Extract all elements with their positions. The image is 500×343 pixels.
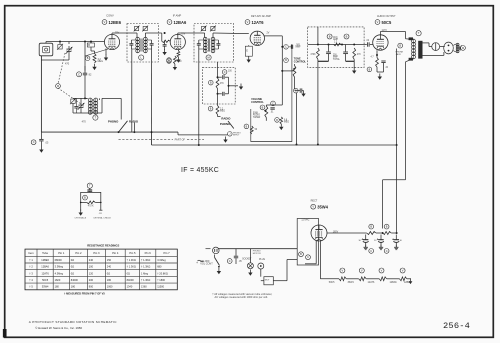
svg-text:† 1: † 1 bbox=[29, 259, 33, 262]
V4 cathode resistor bbox=[367, 50, 378, 71]
svg-text:A PHOTOFACT STANDARD NOTATION: A PHOTOFACT STANDARD NOTATION SCHEMATIC bbox=[29, 320, 117, 324]
svg-text:INPUT: INPUT bbox=[233, 135, 240, 137]
svg-text:100: 100 bbox=[89, 266, 94, 269]
B+ wire end bbox=[391, 145, 397, 234]
wire antenna to V1 grid bbox=[46, 42, 105, 44]
svg-text:V: V bbox=[381, 268, 383, 272]
volume pot R7 bbox=[260, 105, 282, 118]
AC line entry bbox=[198, 249, 211, 262]
wire osc out bbox=[85, 98, 121, 119]
node filt2 bbox=[382, 232, 384, 234]
footer copyright bbox=[35, 326, 82, 330]
capacitor C6 if bypass bbox=[162, 32, 171, 62]
svg-text:MOT: MOT bbox=[265, 279, 270, 281]
svg-text:C: C bbox=[307, 256, 309, 259]
T-A core bbox=[141, 39, 142, 52]
crystal cartridge ref bbox=[87, 183, 92, 188]
speaker SP bbox=[444, 42, 454, 54]
ground diode box bbox=[247, 57, 251, 63]
svg-text:180: 180 bbox=[71, 286, 76, 289]
trimmer C1C bbox=[57, 42, 63, 50]
wire jack drop bbox=[396, 49, 398, 145]
resistor R6 2.2Meg vol bbox=[208, 94, 225, 115]
wire T-A secondary drop bbox=[151, 49, 153, 132]
svg-text:PHONO: PHONO bbox=[108, 120, 119, 124]
electrolytic C1 bbox=[359, 233, 369, 250]
svg-text:200: 200 bbox=[89, 279, 94, 282]
svg-text:180: 180 bbox=[107, 279, 112, 282]
svg-text:12AT6: 12AT6 bbox=[252, 20, 265, 25]
svg-text:68000: 68000 bbox=[55, 259, 63, 262]
svg-text:Pin 5: Pin 5 bbox=[129, 251, 136, 255]
trimmer C1D bbox=[70, 98, 78, 113]
phone jack J2 bbox=[432, 43, 440, 51]
svg-text:PART OF: PART OF bbox=[175, 139, 186, 142]
T-A ref bbox=[139, 55, 144, 60]
svg-text:C: C bbox=[229, 260, 231, 263]
wire OT secondary bottom bbox=[423, 52, 444, 55]
svg-text:0Ω: 0Ω bbox=[127, 272, 130, 275]
svg-text:120: 120 bbox=[89, 272, 94, 275]
ground C5 bbox=[39, 147, 43, 153]
label V1 CONV bbox=[102, 14, 122, 25]
svg-text:12BE6: 12BE6 bbox=[41, 259, 49, 262]
switch S1 arm bbox=[118, 121, 136, 133]
wire osc grid drop bbox=[84, 42, 86, 71]
label 470 osc bbox=[82, 120, 87, 123]
svg-text:0Ω: 0Ω bbox=[71, 259, 74, 262]
svg-text:B: B bbox=[346, 34, 348, 38]
svg-text:† 3: † 3 bbox=[29, 272, 33, 275]
tuning capacitor C1B osc bbox=[78, 98, 85, 113]
wire V4 plate bbox=[380, 32, 413, 40]
label PHONO sw2 bbox=[220, 122, 231, 126]
svg-text:35W4: 35W4 bbox=[348, 281, 355, 284]
trimmer B1 bbox=[201, 26, 207, 32]
svg-text:† 1.3KΩ: † 1.3KΩ bbox=[141, 259, 150, 262]
heater ref 1 bbox=[340, 268, 345, 273]
label 2V bbox=[267, 31, 270, 34]
svg-text:C: C bbox=[386, 250, 388, 253]
svg-text:† 1.3KΩ: † 1.3KΩ bbox=[127, 259, 136, 262]
svg-text:C: C bbox=[224, 71, 226, 74]
heater seg 2 bbox=[348, 277, 380, 284]
svg-text:† 2: † 2 bbox=[29, 266, 33, 269]
loop antenna LA bbox=[39, 43, 53, 56]
T-B primary coil bbox=[203, 35, 207, 53]
svg-text:† 1800: † 1800 bbox=[157, 279, 165, 282]
diode load box bbox=[245, 45, 252, 56]
wire jack to speaker bbox=[440, 46, 445, 48]
capacitor C4 osc grid bbox=[77, 66, 92, 98]
label V5 bbox=[311, 199, 329, 209]
svg-text:M: M bbox=[462, 47, 464, 50]
T-B core bbox=[209, 39, 210, 52]
tube V5 35W4 bbox=[311, 225, 327, 241]
IF transformer A box bbox=[127, 24, 158, 63]
svg-text:V: V bbox=[342, 268, 344, 272]
svg-text:+: + bbox=[362, 237, 364, 241]
avc bus bbox=[308, 44, 364, 46]
svg-text:680: 680 bbox=[157, 266, 162, 269]
svg-text:CONTROL: CONTROL bbox=[294, 60, 307, 63]
ref C in term box bbox=[306, 255, 311, 260]
T-B primary cap bbox=[197, 40, 205, 49]
wiper cap bbox=[266, 101, 275, 121]
svg-text:MEG: MEG bbox=[98, 60, 104, 63]
svg-text:12AT6: 12AT6 bbox=[368, 281, 375, 284]
resistor det 47K bbox=[209, 76, 225, 88]
svg-text:CONV: CONV bbox=[106, 14, 114, 18]
avc cap 2 bbox=[343, 45, 348, 62]
heater ref 2 bbox=[359, 268, 364, 273]
svg-text:TAPER: TAPER bbox=[253, 116, 261, 119]
svg-text:C: C bbox=[272, 102, 274, 105]
svg-text:470K: 470K bbox=[310, 54, 316, 56]
wire det out bbox=[229, 84, 244, 90]
svg-text:CONTROL: CONTROL bbox=[251, 100, 264, 104]
svg-text:V: V bbox=[361, 268, 363, 272]
svg-text:1360: 1360 bbox=[141, 286, 147, 289]
capacitor C5 line bypass bbox=[31, 132, 49, 146]
resistor V2 cathode bbox=[176, 50, 180, 63]
wire avc top entry bbox=[292, 27, 318, 45]
terminal box bbox=[297, 219, 318, 266]
svg-text:MOTOR: MOTOR bbox=[253, 253, 261, 255]
svg-text:4.3Meg: 4.3Meg bbox=[55, 272, 64, 275]
wire V2 plate to T-B bbox=[178, 33, 205, 35]
AC bus wire bbox=[215, 246, 298, 249]
svg-text:12BA6: 12BA6 bbox=[390, 281, 398, 284]
wire V1 osc diag bbox=[85, 49, 108, 56]
cartridge load ref bbox=[83, 195, 88, 200]
svg-text:AUDIO OUTPUT: AUDIO OUTPUT bbox=[377, 15, 396, 18]
dashed part-of line bbox=[119, 139, 205, 142]
avc series resistor bbox=[328, 42, 356, 46]
tuning capacitor C1A bbox=[41, 42, 72, 61]
ground cartridge bbox=[79, 210, 83, 216]
heater ref 3 bbox=[379, 268, 384, 273]
svg-text:11500: 11500 bbox=[157, 286, 164, 289]
plug symbol bbox=[258, 249, 264, 269]
wire V1 plate to T-A bbox=[112, 32, 166, 34]
label 70V V2 bbox=[181, 33, 186, 36]
gang dashed link bbox=[58, 53, 81, 104]
svg-text:180: 180 bbox=[55, 286, 60, 289]
svg-text:35W4: 35W4 bbox=[317, 204, 328, 209]
ref R in term box bbox=[299, 252, 304, 257]
label socket bbox=[242, 258, 252, 260]
label 470 bbox=[65, 63, 70, 66]
wire vol bottom bbox=[265, 121, 267, 142]
cartridge output terminal bbox=[99, 210, 103, 215]
T-A secondary cap bbox=[145, 40, 153, 49]
svg-text:C: C bbox=[78, 72, 80, 76]
svg-text:680: 680 bbox=[178, 60, 183, 63]
svg-text:1820: 1820 bbox=[55, 279, 61, 282]
svg-text:VOL CONT: VOL CONT bbox=[200, 263, 213, 266]
svg-text:B: B bbox=[329, 34, 331, 38]
crystal cartridge bbox=[81, 188, 101, 211]
svg-text:DET AVC AF AMP: DET AVC AF AMP bbox=[251, 15, 271, 18]
footnote 1 bbox=[212, 292, 272, 296]
label V4 bbox=[375, 15, 396, 25]
heater seg 1 bbox=[329, 277, 359, 284]
footnote 2 bbox=[215, 295, 269, 299]
svg-text:240: 240 bbox=[89, 259, 94, 262]
svg-text:117VAC: 117VAC bbox=[301, 219, 309, 222]
avc cap 1 bbox=[326, 45, 341, 62]
svg-text:Pin 4: Pin 4 bbox=[112, 251, 119, 255]
wire det line bbox=[217, 62, 219, 77]
svg-text:Pin 2: Pin 2 bbox=[75, 251, 82, 255]
svg-text:TOTAL: TOTAL bbox=[333, 58, 341, 61]
phono jack J1 bbox=[222, 132, 242, 143]
volume control label bbox=[251, 97, 264, 104]
label PHONO sw1 bbox=[108, 120, 119, 124]
grid stopper V2 bbox=[162, 40, 170, 42]
svg-text:150: 150 bbox=[107, 259, 112, 262]
svg-text:47K: 47K bbox=[220, 83, 225, 85]
svg-text:470: 470 bbox=[65, 63, 70, 66]
svg-text:Pin 6: Pin 6 bbox=[145, 251, 152, 255]
svg-text:1 Meg: 1 Meg bbox=[141, 272, 149, 275]
gang ref M bbox=[56, 84, 61, 89]
osc coil ref T bbox=[93, 115, 98, 120]
svg-text:RADIO: RADIO bbox=[129, 120, 139, 124]
tone pot bbox=[281, 58, 296, 77]
svg-text:240: 240 bbox=[107, 266, 112, 269]
output transformer ref bbox=[416, 31, 421, 36]
wire speaker return elbow bbox=[383, 180, 406, 229]
ground R1 bbox=[92, 64, 96, 70]
wire osc top bbox=[73, 97, 88, 99]
detector filter box bbox=[203, 67, 236, 104]
table resistance readings bbox=[25, 249, 177, 290]
svg-text:† 5: † 5 bbox=[29, 286, 33, 289]
bias resistor in box bbox=[244, 124, 258, 134]
ground V1 cathode bbox=[104, 49, 108, 61]
svg-text:Pin 3: Pin 3 bbox=[93, 251, 100, 255]
ground heater bbox=[409, 278, 413, 284]
svg-text:256-4: 256-4 bbox=[443, 321, 470, 331]
svg-text:3.3Meg: 3.3Meg bbox=[157, 259, 166, 262]
node bus 296 bbox=[296, 93, 298, 146]
svg-text:† 1.3KΩ: † 1.3KΩ bbox=[141, 266, 150, 269]
B+ wire bbox=[327, 232, 367, 234]
label phono motor bbox=[253, 251, 261, 255]
wire det to sw bbox=[218, 115, 221, 117]
AVC network box bbox=[308, 27, 364, 68]
resistor R4 680 bbox=[167, 56, 182, 70]
label V2 IF AMP bbox=[167, 14, 187, 25]
oscillator coil T1 windings bbox=[88, 98, 99, 114]
wire motor loop bbox=[273, 260, 297, 281]
svg-text:† 4: † 4 bbox=[29, 279, 33, 282]
svg-text:PLUG: PLUG bbox=[259, 259, 265, 261]
svg-text:M: M bbox=[57, 85, 59, 88]
wire V5 plate stub bbox=[318, 219, 320, 226]
svg-text:† 1.3KΩ: † 1.3KΩ bbox=[127, 266, 136, 269]
label 70V bbox=[115, 32, 120, 35]
svg-text:50C5: 50C5 bbox=[329, 281, 335, 284]
svg-text:12BA6: 12BA6 bbox=[174, 20, 187, 25]
svg-text:1340: 1340 bbox=[127, 286, 133, 289]
label 165V bbox=[333, 231, 339, 234]
tube V4 50C5 bbox=[373, 35, 388, 50]
mark asterisk bbox=[196, 261, 199, 265]
terminal strip box bbox=[87, 42, 94, 48]
label RADIO sw2 bbox=[221, 116, 231, 120]
svg-text:† 20.8KΩ: † 20.8KΩ bbox=[157, 272, 168, 275]
svg-text:3.3Meg: 3.3Meg bbox=[55, 266, 64, 269]
label on-off bbox=[200, 260, 213, 266]
heater bus bbox=[320, 278, 339, 280]
svg-text:AC voltages measured with 1000: AC voltages measured with 1000 ohm per v… bbox=[215, 295, 269, 299]
wire avc return drop bbox=[317, 61, 319, 144]
footer photofact bbox=[29, 320, 117, 324]
T-A secondary coil bbox=[144, 35, 148, 53]
table footnote bbox=[64, 291, 105, 295]
svg-text:+: + bbox=[377, 237, 379, 241]
svg-text:B: B bbox=[88, 43, 90, 47]
svg-text:470: 470 bbox=[82, 120, 87, 123]
svg-text:C: C bbox=[295, 90, 297, 93]
label V3 bbox=[245, 15, 271, 25]
trimmer A2 bbox=[142, 26, 148, 32]
avc ref 1 bbox=[327, 34, 332, 39]
avc ref 2 bbox=[344, 34, 349, 39]
svg-text:84000: 84000 bbox=[71, 279, 79, 282]
ref C elcap2 bbox=[384, 249, 389, 254]
label plug bbox=[259, 259, 265, 261]
ref R1 bbox=[85, 56, 90, 61]
node osc bbox=[84, 97, 86, 99]
capacitor coupling C bbox=[281, 44, 301, 49]
svg-text:CRYSTAL CHUCK: CRYSTAL CHUCK bbox=[93, 217, 111, 220]
label crystal case bbox=[93, 217, 111, 220]
wire OT primary bottom drop bbox=[406, 59, 414, 180]
svg-text:V: V bbox=[402, 268, 404, 272]
label crystal a bbox=[75, 217, 87, 220]
capacitor det 2 bbox=[217, 85, 230, 96]
svg-text:0Ω: 0Ω bbox=[71, 266, 74, 269]
wire T-B primary drop bbox=[198, 49, 200, 145]
svg-text:35W4: 35W4 bbox=[42, 286, 49, 289]
wire OT secondary top bbox=[423, 43, 432, 47]
filter resistor 2 bbox=[376, 224, 391, 234]
wire V5 pins down bbox=[305, 241, 320, 279]
bus B- lower bbox=[151, 131, 397, 146]
svg-text:CRYSTAL A: CRYSTAL A bbox=[75, 217, 87, 220]
wire T-B sec to V3 bbox=[213, 33, 249, 35]
IF transformer B box bbox=[194, 24, 234, 63]
V4 cathode join bbox=[377, 67, 389, 80]
capacitor to V4 grid bbox=[364, 40, 373, 47]
capacitor det 1 bbox=[218, 70, 233, 86]
svg-text:MMF: MMF bbox=[296, 47, 302, 49]
node bus avc bbox=[317, 144, 319, 146]
wire V3 plate out bbox=[264, 36, 283, 105]
avc footer wire bbox=[318, 59, 354, 68]
wire T-A primary drop bbox=[131, 49, 133, 132]
ground avc bbox=[352, 68, 356, 74]
T-B ref bbox=[206, 55, 211, 60]
svg-text:RESISTANCE READINGS: RESISTANCE READINGS bbox=[87, 244, 119, 248]
V4 cathode cap bbox=[376, 54, 386, 70]
phono motor box bbox=[261, 269, 274, 285]
speaker voice coil bbox=[453, 43, 459, 53]
speaker ref bbox=[459, 45, 466, 50]
svg-text:IF = 455KC: IF = 455KC bbox=[181, 167, 219, 174]
T-B secondary coil bbox=[211, 35, 215, 53]
tube V1 12BE6 bbox=[104, 34, 119, 49]
resistor cartridge 470K bbox=[80, 201, 102, 207]
avc resistor 400 bbox=[353, 48, 362, 59]
svg-text:84000: 84000 bbox=[127, 279, 135, 282]
tone cap bbox=[294, 77, 306, 97]
svg-text:C: C bbox=[33, 141, 35, 144]
ref C elcap1 bbox=[369, 249, 374, 254]
svg-text:IF AMP: IF AMP bbox=[173, 14, 182, 18]
wire radio contact bbox=[133, 123, 135, 133]
interlock plug bbox=[213, 247, 220, 254]
tube V2 12BA6 bbox=[170, 34, 185, 49]
svg-text:† 1.3KΩ: † 1.3KΩ bbox=[141, 279, 150, 282]
svg-text:900: 900 bbox=[89, 286, 94, 289]
switch S1B arm bbox=[228, 121, 234, 129]
filter resistor 1 bbox=[367, 224, 376, 234]
switch S2 power bbox=[215, 255, 220, 268]
node osc grid line bbox=[84, 41, 86, 43]
svg-text:2V: 2V bbox=[267, 31, 270, 34]
output transformer bbox=[409, 37, 423, 60]
volume enclosure box bbox=[251, 44, 292, 142]
socket symbol bbox=[247, 249, 253, 269]
svg-text:Tube: Tube bbox=[42, 251, 49, 255]
svg-text:50C5: 50C5 bbox=[382, 20, 393, 25]
heater seg 3 bbox=[368, 277, 400, 284]
svg-text:0Ω: 0Ω bbox=[71, 272, 74, 275]
avc resistor 470K bbox=[310, 44, 319, 60]
label tone control bbox=[294, 57, 307, 63]
bus AVC/B- left bbox=[41, 131, 178, 133]
label IF=455KC bbox=[181, 167, 219, 174]
svg-text:© Howard W. Sams & Co., Inc. 1: © Howard W. Sams & Co., Inc. 1956 bbox=[35, 326, 82, 330]
avc label bbox=[333, 36, 339, 41]
svg-text:1060: 1060 bbox=[107, 286, 113, 289]
wire antenna return bbox=[40, 56, 42, 132]
node ant trimmer bbox=[59, 41, 61, 43]
label 117V bbox=[382, 29, 388, 32]
wire T-A sec to V2 bbox=[145, 33, 161, 41]
svg-text:Item: Item bbox=[28, 251, 34, 255]
resistor R1 2.2Meg bbox=[91, 47, 103, 63]
wire bus step bbox=[178, 132, 222, 135]
T-A primary cap bbox=[129, 40, 137, 49]
svg-text:C: C bbox=[370, 250, 372, 253]
electrolytic C2 bbox=[374, 235, 384, 250]
svg-text:C: C bbox=[285, 46, 287, 49]
svg-text:50C5: 50C5 bbox=[42, 279, 49, 282]
heater seg 4 bbox=[390, 277, 412, 284]
T-B secondary cap bbox=[213, 40, 220, 49]
tube V3 12AT6 bbox=[250, 31, 264, 45]
T-A primary coil bbox=[136, 35, 140, 53]
heater ref 4 bbox=[400, 268, 405, 273]
svg-text:Pin 7: Pin 7 bbox=[164, 251, 171, 255]
volume pot labels bbox=[253, 112, 261, 118]
